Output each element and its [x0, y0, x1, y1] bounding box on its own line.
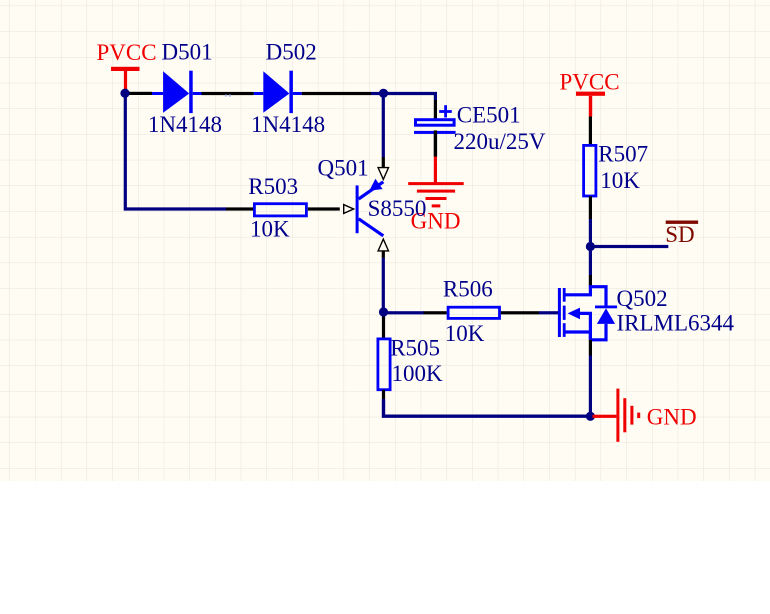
pin Q502 source [589, 340, 592, 356]
svg-text:D502: D502 [266, 40, 317, 65]
resistor R507 [584, 145, 596, 196]
wire R506 to Q502 gate [539, 311, 558, 314]
wire node A to D501 anode [124, 92, 130, 95]
pin R506 left [424, 311, 447, 314]
pin R507 top [589, 117, 592, 145]
power symbol PVCC (right) [560, 70, 620, 117]
wire node C down to R505 [382, 312, 385, 318]
wire D502 cathode to node B [371, 92, 384, 95]
node A junction (PVCC / D501 / wire) [120, 89, 129, 98]
svg-text:R506: R506 [443, 276, 493, 301]
svg-text:PVCC: PVCC [560, 70, 620, 95]
capacitor CE501 [414, 105, 456, 134]
svg-text:1N4148: 1N4148 [148, 112, 222, 137]
svg-text:Q501: Q501 [318, 156, 369, 181]
svg-text:CE501: CE501 [457, 103, 521, 128]
svg-text:R507: R507 [598, 142, 648, 167]
svg-text:GND: GND [647, 404, 697, 429]
svg-text:IRLML6344: IRLML6344 [617, 311, 735, 336]
wire node B to CE501 corner [384, 94, 436, 101]
pin Q502 drain [589, 275, 592, 287]
wire R507 to node E [589, 219, 592, 247]
svg-text:D501: D501 [162, 40, 213, 65]
node D junction (R505 / Q502 source / GND) [586, 412, 595, 421]
svg-text:10K: 10K [600, 168, 640, 193]
ground GND (bottom right) [593, 389, 641, 442]
pin R503 right [308, 207, 340, 210]
pin R506 right [501, 311, 539, 314]
diode D501 [152, 71, 202, 113]
wire node A down to R503 row [125, 94, 226, 210]
node B junction (diodes / CE501 / Q501 emitter) [379, 89, 388, 98]
node E junction (R507 / Q502 drain / SD) [586, 242, 595, 251]
pin arrow Q501 emitter [378, 168, 388, 180]
svg-text:1N4148: 1N4148 [251, 112, 325, 137]
pin R505 bottom [382, 390, 385, 399]
transistor Q502 (N-MOSFET with body diode) [558, 287, 617, 340]
wire node B down to Q501 emitter [382, 94, 385, 158]
wire R505 bottom to node D [384, 399, 591, 416]
sheet background [0, 0, 770, 481]
ground GND (middle) [408, 157, 464, 208]
svg-text:SD: SD [665, 222, 694, 247]
wire node E to net label SD [590, 245, 668, 248]
svg-text:220u/25V: 220u/25V [454, 129, 546, 154]
svg-text:R505: R505 [390, 336, 440, 361]
node C junction (Q501 / R505 / R506) [379, 307, 388, 316]
pin arrow Q501 collector [378, 239, 388, 251]
net label SD (with overbar) [665, 221, 698, 248]
resistor R505 [378, 339, 390, 390]
wire node C to R506 [384, 311, 425, 314]
power symbol PVCC (left) [97, 40, 157, 89]
pin CE501 positive [434, 100, 437, 119]
wire node E down to Q502 drain [589, 247, 592, 276]
svg-text:10K: 10K [250, 217, 290, 242]
svg-text:S8550: S8550 [368, 196, 427, 221]
wire Q502 source to node D [589, 356, 592, 418]
resistor R506 [448, 307, 499, 318]
wire Q501 collector to node C [382, 258, 385, 312]
svg-text:10K: 10K [445, 321, 485, 346]
pin D501 anode [130, 92, 153, 95]
pin R507 bottom [589, 196, 592, 219]
pin R503 left [226, 207, 253, 210]
svg-text:100K: 100K [392, 361, 444, 386]
pin Q501 emitter [382, 157, 385, 168]
resistor R503 [254, 204, 306, 216]
pin Q501 collector [382, 251, 385, 258]
transistor Q501 [356, 179, 384, 236]
svg-text:PVCC: PVCC [97, 40, 157, 65]
pin D502 cathode [302, 92, 371, 95]
pin hotspot marks [225, 95, 227, 97]
pin arrow Q501 base [344, 205, 354, 214]
pin R505 top [382, 317, 385, 339]
pin D501 cathode / pin D502 anode [202, 92, 254, 95]
diode D502 [254, 71, 302, 113]
svg-text:Q502: Q502 [617, 286, 668, 311]
svg-text:R503: R503 [248, 174, 298, 199]
pin CE501 negative [434, 130, 437, 156]
